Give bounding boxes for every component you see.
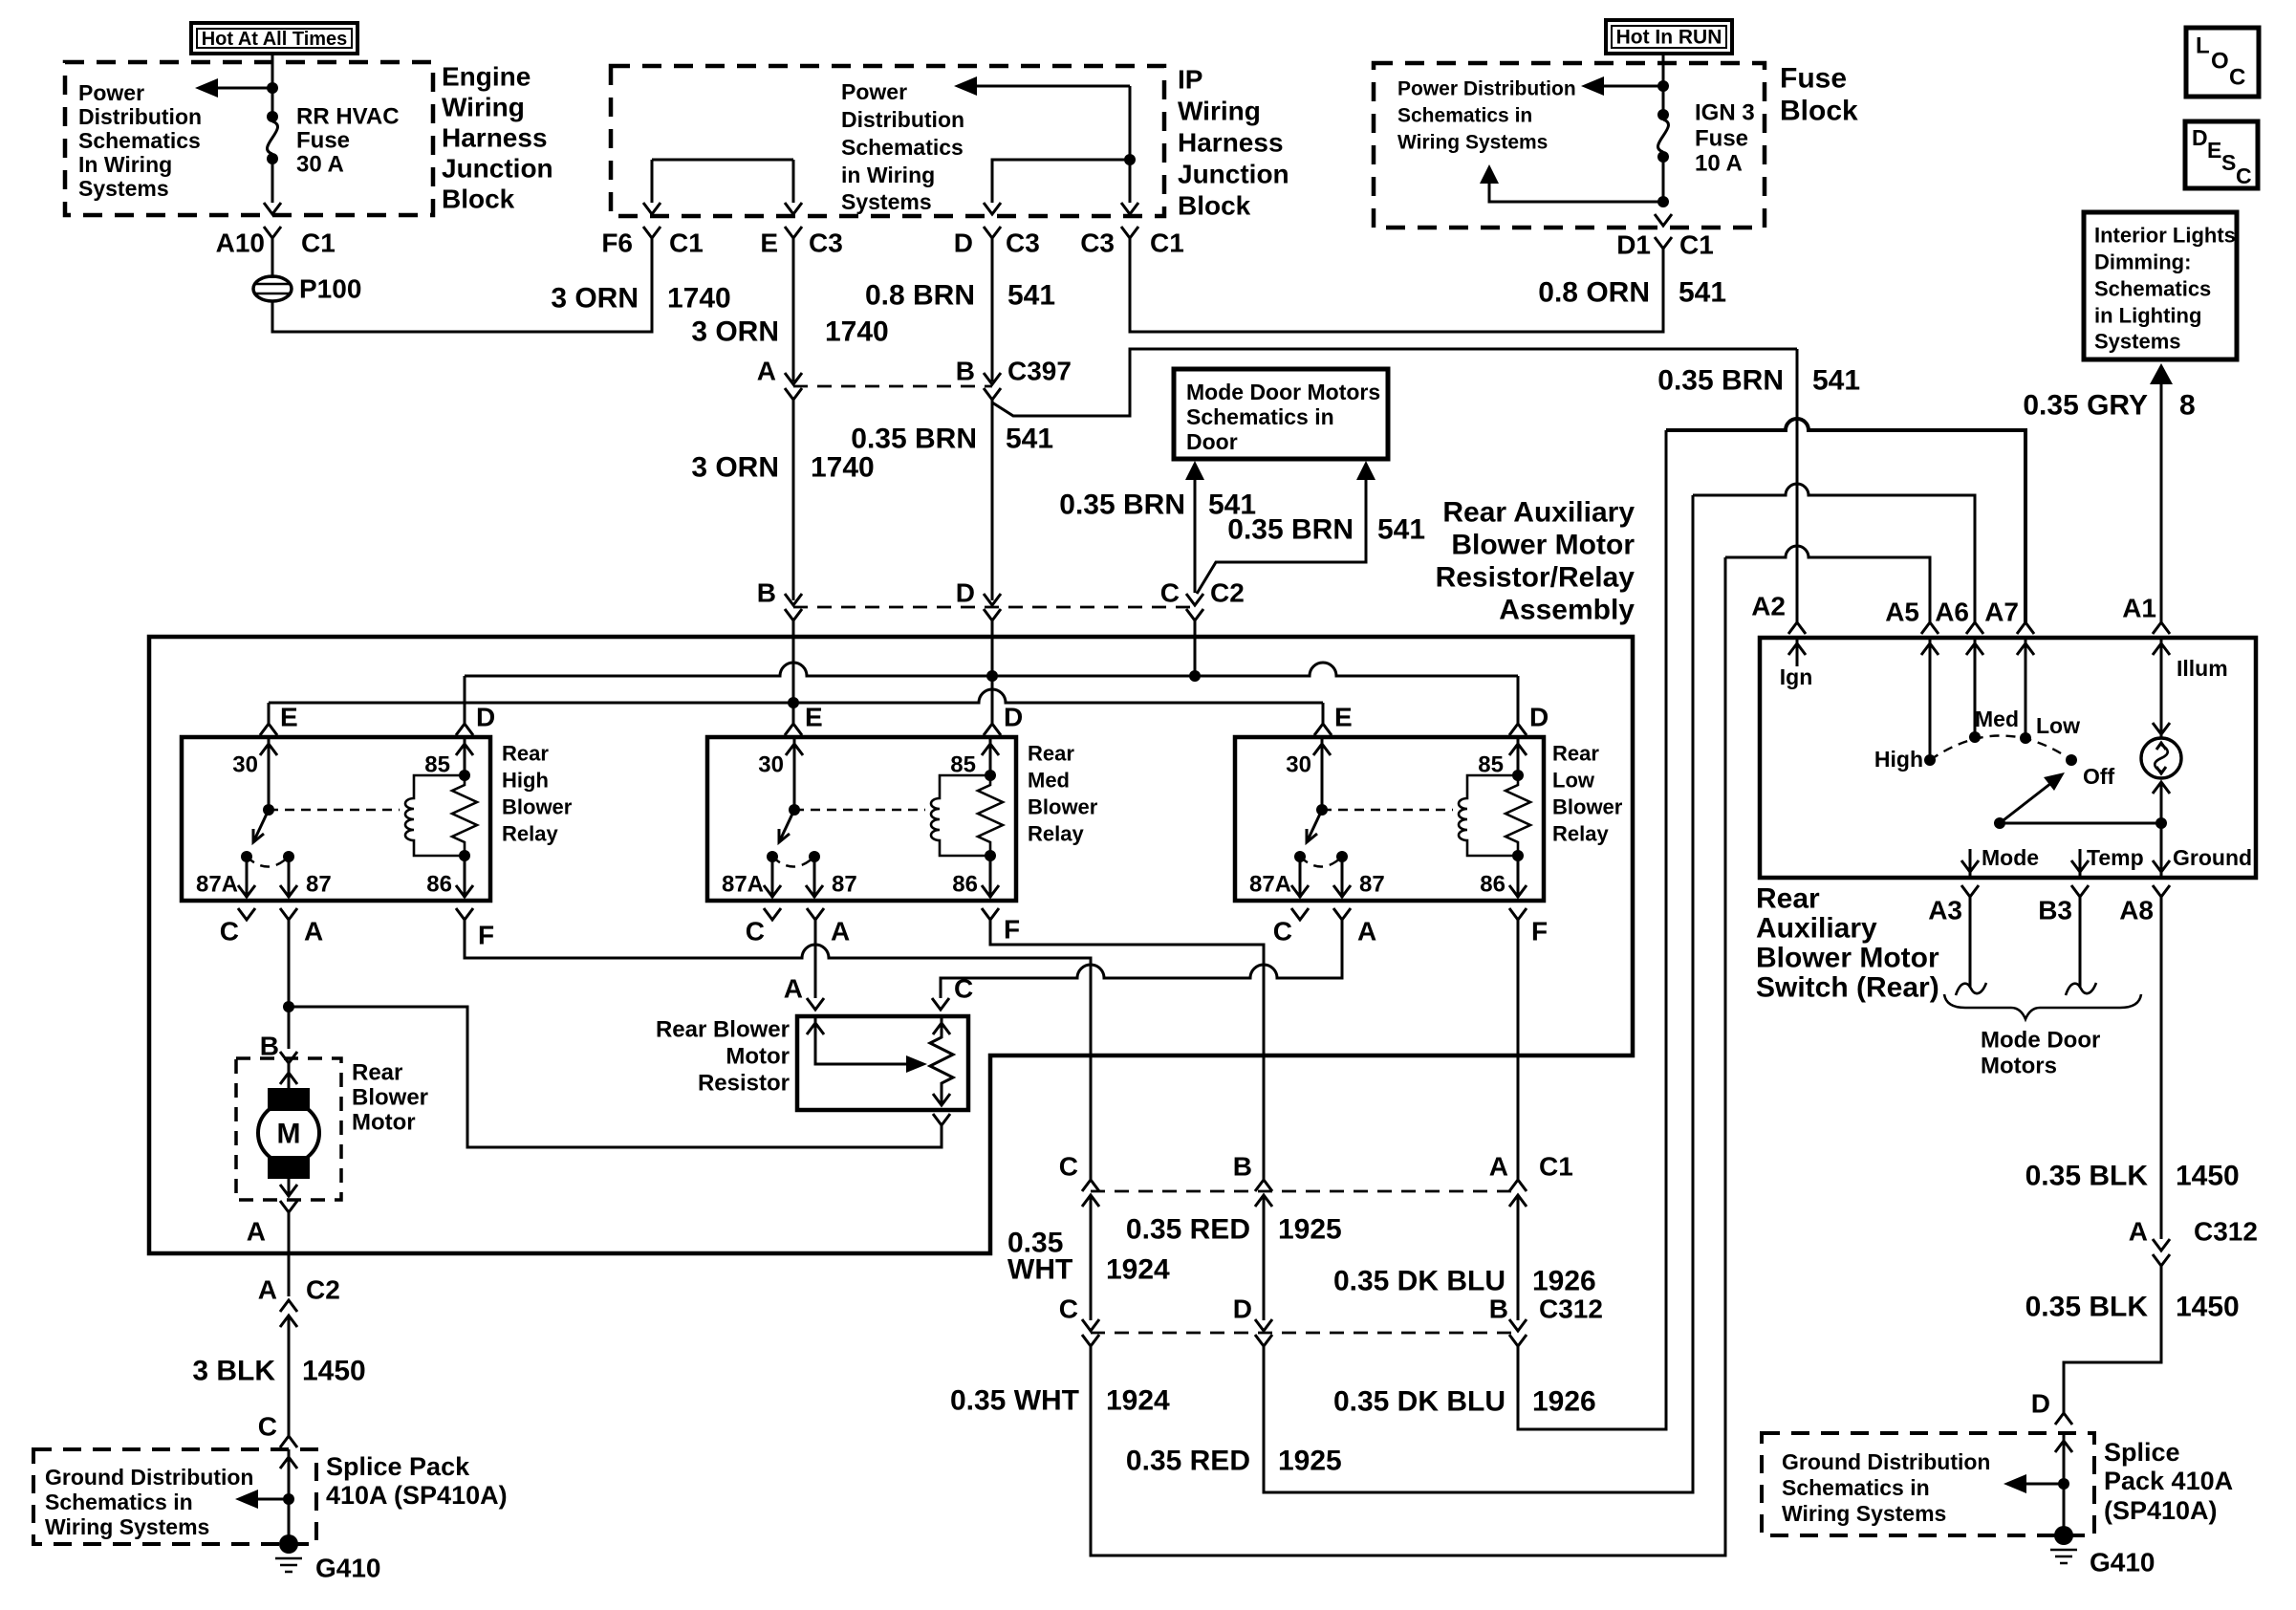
box-exit arrow at engine box bottom xyxy=(264,203,281,214)
motor A fork below dashed box xyxy=(280,1201,297,1212)
svg-text:A5: A5 xyxy=(1885,598,1919,627)
motor brush bottom xyxy=(268,1156,310,1179)
svg-text:A7: A7 xyxy=(1984,598,2019,627)
svg-text:0.35 BRN: 0.35 BRN xyxy=(1227,514,1354,546)
svg-text:1924: 1924 xyxy=(1106,1385,1170,1417)
wire B drop into box xyxy=(792,620,795,703)
wire 0.35 BRN 541 down to switch Ign A2 xyxy=(1796,349,1799,622)
svg-text:C1: C1 xyxy=(301,228,336,258)
wire D1 down to horizontal xyxy=(1130,238,1663,332)
relay U2 Rear Med Blower Relay xyxy=(707,737,1016,901)
connector A10 / C1 xyxy=(216,227,336,278)
wire A8 ground 0.35 BLK 1450 xyxy=(2160,897,2163,1239)
svg-text:Schematics in: Schematics in xyxy=(45,1490,193,1514)
svg-text:Dimming:: Dimming: xyxy=(2094,250,2191,274)
wire 0.35 BRN 541 below C397 to C2 xyxy=(991,400,994,600)
svg-text:C1: C1 xyxy=(1679,230,1714,260)
svg-text:Wiring: Wiring xyxy=(442,93,525,122)
svg-text:High: High xyxy=(1874,747,1923,772)
fuse RR HVAC 30A xyxy=(267,88,400,203)
svg-text:Ground Distribution: Ground Distribution xyxy=(1782,1449,1990,1474)
svg-text:1926: 1926 xyxy=(1532,1266,1596,1297)
svg-text:C312: C312 xyxy=(2194,1217,2258,1247)
wire 3 ORN 1740 below C397 xyxy=(792,400,795,600)
svg-text:E: E xyxy=(1334,703,1353,732)
text Power Distribution Schematics in Wiring Systems xyxy=(841,79,964,214)
motor B fork xyxy=(280,1052,297,1063)
wiper common to ground xyxy=(2000,822,2161,825)
motor dashed box xyxy=(236,1058,341,1200)
svg-text:A6: A6 xyxy=(1935,598,1969,627)
switch input forks A2 A5 A6 A7 A1 xyxy=(1751,592,2170,635)
svg-text:Interior Lights: Interior Lights xyxy=(2094,224,2236,248)
svg-text:D: D xyxy=(2031,1389,2050,1419)
svg-text:Engine: Engine xyxy=(442,62,531,92)
svg-text:Power: Power xyxy=(841,79,907,104)
branch arrow up inside fuse block xyxy=(1480,164,1669,207)
splice junction and arrow left xyxy=(2058,1478,2069,1490)
svg-text:A: A xyxy=(2129,1217,2148,1247)
svg-text:1450: 1450 xyxy=(2176,1292,2240,1323)
svg-text:Rear: Rear xyxy=(352,1060,402,1086)
dashed box ground distribution right xyxy=(1762,1433,2094,1535)
relay2 output forks C / A / F xyxy=(746,908,1020,946)
relay1 E/D pin wires xyxy=(269,676,465,724)
svg-text:G410: G410 xyxy=(315,1554,381,1583)
svg-text:Block: Block xyxy=(1178,191,1251,221)
resistor output fork xyxy=(933,1114,950,1125)
label box "Hot In RUN" xyxy=(1606,20,1732,54)
svg-text:541: 541 xyxy=(1007,280,1055,312)
svg-text:Wiring Systems: Wiring Systems xyxy=(1397,132,1548,154)
dashed box IP junction block xyxy=(611,66,1164,216)
svg-text:C: C xyxy=(2236,163,2252,188)
svg-text:A8: A8 xyxy=(2119,896,2154,925)
svg-text:10 A: 10 A xyxy=(1695,151,1743,177)
svg-text:Block: Block xyxy=(442,185,515,214)
motor M circle xyxy=(258,1102,319,1164)
connector A/C2 xyxy=(258,1275,340,1328)
svg-text:Hot At All Times: Hot At All Times xyxy=(202,29,348,50)
svg-text:Relay: Relay xyxy=(1552,822,1609,846)
wire 0.35 DK BLU 1926 (A column) xyxy=(1517,1195,1520,1320)
resistor A fork xyxy=(807,998,824,1010)
svg-text:Fuse: Fuse xyxy=(1780,63,1847,95)
svg-text:541: 541 xyxy=(1679,277,1726,309)
svg-text:0.8 ORN: 0.8 ORN xyxy=(1538,277,1650,309)
wire relay2 F to C1-B column xyxy=(990,920,1264,1180)
svg-text:0.35 BRN: 0.35 BRN xyxy=(851,424,977,455)
bus 85-coil feed (y=707) xyxy=(465,663,1518,676)
text Engine Wiring Harness Junction Block xyxy=(442,62,553,214)
Ground pin xyxy=(2160,823,2163,876)
svg-text:0.35 RED: 0.35 RED xyxy=(1126,1446,1250,1477)
svg-text:Motor: Motor xyxy=(726,1044,790,1070)
svg-text:B: B xyxy=(757,578,776,608)
svg-text:Hot In RUN: Hot In RUN xyxy=(1616,27,1722,49)
arrow to power distribution (left) xyxy=(195,78,278,98)
svg-text:C397: C397 xyxy=(1007,357,1072,386)
bus 30-contact feed (y=735) xyxy=(269,689,1323,703)
resistor A pin wire with arrow to element xyxy=(815,1016,906,1064)
svg-text:Wiring: Wiring xyxy=(1178,97,1261,126)
wire 3 BLK 1450 xyxy=(288,1316,291,1436)
svg-text:E: E xyxy=(280,703,298,732)
svg-text:0.35 BRN: 0.35 BRN xyxy=(1059,490,1185,521)
svg-text:0.35 BLK: 0.35 BLK xyxy=(2025,1161,2149,1192)
svg-text:541: 541 xyxy=(1006,424,1053,455)
svg-text:F: F xyxy=(1004,915,1020,945)
svg-text:0.35 DK BLU: 0.35 DK BLU xyxy=(1333,1266,1505,1297)
connector D1/C1 xyxy=(1616,230,1714,260)
connector C2 row xyxy=(757,578,1245,621)
wire relay1 87 down to motor junction xyxy=(288,920,291,1049)
svg-text:Blower Motor: Blower Motor xyxy=(1451,530,1635,561)
svg-text:IP: IP xyxy=(1178,65,1202,95)
svg-text:A1: A1 xyxy=(2122,594,2156,623)
A7 Low pin xyxy=(2025,638,2027,738)
dashed box Engine Wiring Harness Junction Block xyxy=(65,62,433,215)
svg-text:High: High xyxy=(502,769,549,793)
svg-text:P100: P100 xyxy=(299,274,361,304)
svg-text:1450: 1450 xyxy=(302,1356,366,1387)
svg-text:C312: C312 xyxy=(1539,1295,1603,1324)
text IP Wiring Harness Junction Block xyxy=(1178,65,1289,221)
svg-text:Rear: Rear xyxy=(1756,883,1820,915)
svg-text:8: 8 xyxy=(2179,390,2196,422)
svg-text:Systems: Systems xyxy=(2094,330,2181,354)
wire label 0.8 ORN 541 xyxy=(1538,277,1726,309)
svg-text:410A (SP410A): 410A (SP410A) xyxy=(326,1481,508,1510)
dashed box ground distribution left xyxy=(33,1449,316,1544)
svg-text:A: A xyxy=(784,974,803,1004)
DESC reference box xyxy=(2185,121,2258,188)
svg-text:Blower: Blower xyxy=(1028,795,1098,819)
box Interior Lights Dimming: Schematics in Lighting Systems xyxy=(2084,212,2237,359)
assembly outline box xyxy=(149,637,1633,1253)
svg-text:(SP410A): (SP410A) xyxy=(2104,1496,2218,1525)
svg-text:3 ORN: 3 ORN xyxy=(551,283,639,315)
wire to A7 (top) xyxy=(1666,419,2025,622)
ground G410 xyxy=(275,1534,381,1583)
arrow left to power distribution xyxy=(1581,76,1669,96)
wire C1 feed inside IP box xyxy=(1129,86,1132,203)
svg-text:C: C xyxy=(1059,1152,1078,1182)
svg-text:Low: Low xyxy=(2036,713,2080,738)
relay3 E/D pin wires xyxy=(1323,676,1518,724)
svg-text:In Wiring: In Wiring xyxy=(78,152,172,177)
junction dot on C1 wire xyxy=(1124,154,1136,165)
motor feed wire xyxy=(288,1063,291,1090)
wire 0.8 BRN 541 (D drop) xyxy=(991,238,994,381)
arrow up into interior lights box xyxy=(2150,363,2173,384)
svg-text:A: A xyxy=(247,1217,266,1247)
text Splice Pack 410A (SP410A) xyxy=(326,1452,508,1510)
wire from Hot At All Times into box xyxy=(271,54,274,88)
svg-text:A2: A2 xyxy=(1751,592,1786,621)
svg-text:Fuse: Fuse xyxy=(296,128,350,154)
svg-text:Schematics in: Schematics in xyxy=(1186,404,1334,429)
svg-text:Blower Motor: Blower Motor xyxy=(1756,943,1939,974)
svg-text:Blower: Blower xyxy=(502,795,573,819)
svg-text:Relay: Relay xyxy=(1028,822,1084,846)
text Rear Blower Motor xyxy=(352,1060,428,1136)
svg-text:D: D xyxy=(1004,703,1023,732)
resistor C fork xyxy=(932,998,949,1010)
wire A3 to mode door motors xyxy=(1969,897,1972,988)
svg-text:Power Distribution: Power Distribution xyxy=(1397,78,1576,100)
switch box xyxy=(1760,638,2256,878)
svg-text:Distribution: Distribution xyxy=(78,104,202,129)
svg-text:Schematics: Schematics xyxy=(78,128,201,153)
svg-text:Med: Med xyxy=(1028,769,1070,793)
svg-text:C: C xyxy=(2229,65,2245,91)
svg-text:Motor: Motor xyxy=(352,1110,416,1136)
svg-text:D: D xyxy=(956,578,975,608)
svg-text:A: A xyxy=(258,1275,277,1305)
svg-text:B: B xyxy=(1489,1295,1508,1324)
svg-text:Schematics in: Schematics in xyxy=(1397,105,1532,127)
internal bus to D exit xyxy=(992,160,1130,203)
svg-text:Splice Pack: Splice Pack xyxy=(326,1452,470,1481)
box-exit arrows IP bottom xyxy=(643,203,661,214)
relay3 output forks C / A / F xyxy=(1273,908,1548,946)
svg-text:D: D xyxy=(954,228,973,258)
svg-text:F: F xyxy=(478,921,494,950)
connector C into splice pack xyxy=(280,1436,297,1447)
relay1 output forks C / A / F xyxy=(220,908,494,950)
svg-text:M: M xyxy=(277,1119,301,1150)
svg-text:E: E xyxy=(760,228,778,258)
svg-text:Resistor: Resistor xyxy=(698,1071,790,1097)
resistor box xyxy=(797,1016,968,1110)
svg-text:C3: C3 xyxy=(809,228,843,258)
svg-text:A3: A3 xyxy=(1928,896,1962,925)
text Splice Pack 410A (SP410A) xyxy=(2104,1438,2233,1525)
relay2 E/D pin wires xyxy=(793,676,992,724)
Off contact xyxy=(2066,754,2077,766)
svg-text:D1: D1 xyxy=(1616,230,1651,260)
svg-text:1924: 1924 xyxy=(1106,1254,1170,1286)
svg-text:B: B xyxy=(1233,1152,1252,1182)
connector E/C3 xyxy=(760,227,842,258)
svg-text:in Wiring: in Wiring xyxy=(841,163,935,187)
svg-text:B: B xyxy=(956,357,975,386)
wire relay3 F to C1-A column xyxy=(1517,920,1520,1180)
svg-text:A10: A10 xyxy=(216,228,265,258)
wire branch 0.35 BRN 541 to mode door box xyxy=(1197,478,1366,594)
svg-text:Junction: Junction xyxy=(1178,160,1289,189)
svg-text:0.35 GRY: 0.35 GRY xyxy=(2023,390,2148,422)
svg-text:Rear: Rear xyxy=(1552,742,1599,766)
svg-text:O: O xyxy=(2211,49,2229,75)
label box "Hot At All Times" xyxy=(191,23,357,54)
svg-text:Ground: Ground xyxy=(2173,845,2252,870)
connector F6/C1 xyxy=(601,227,703,258)
wire to A6 (middle) xyxy=(1693,484,1975,622)
arrow up into mode door box (left) xyxy=(1185,461,1204,480)
svg-text:0.35 BRN: 0.35 BRN xyxy=(1657,365,1784,397)
connector C1 row xyxy=(1059,1152,1573,1207)
svg-text:3 BLK: 3 BLK xyxy=(192,1356,275,1387)
wire 0.35 GRY 8 down to switch A1 xyxy=(2160,384,2163,622)
wiper arm xyxy=(1994,772,2065,829)
svg-text:Block: Block xyxy=(1780,96,1858,127)
svg-text:Fuse: Fuse xyxy=(1695,126,1748,152)
LOC reference box xyxy=(2186,28,2259,97)
svg-text:Rear Auxiliary: Rear Auxiliary xyxy=(1442,497,1635,529)
svg-text:C3: C3 xyxy=(1080,228,1115,258)
connector C3/C1 xyxy=(1080,227,1184,258)
illumination lamp xyxy=(2141,723,2181,823)
svg-text:Harness: Harness xyxy=(442,123,548,153)
svg-text:A: A xyxy=(831,917,850,946)
svg-text:Low: Low xyxy=(1552,769,1595,793)
svg-text:0.35 BLK: 0.35 BLK xyxy=(2025,1292,2149,1323)
box Mode Door Motors Schematics in Door xyxy=(1174,369,1388,459)
svg-text:F6: F6 xyxy=(601,228,633,258)
svg-text:D: D xyxy=(1529,703,1549,732)
wire relay2 87 to resistor A xyxy=(814,920,817,998)
svg-text:C3: C3 xyxy=(1006,228,1040,258)
svg-text:C1: C1 xyxy=(1539,1152,1573,1182)
svg-text:C1: C1 xyxy=(1150,228,1184,258)
box-exit arrow at fuse block bottom xyxy=(1655,214,1672,226)
internal bus F6 to E xyxy=(652,160,793,203)
output forks A3 B3 A8 xyxy=(1928,885,2170,925)
Temp pin xyxy=(2079,849,2082,876)
wire to A5 (bottom) xyxy=(1725,546,1930,622)
svg-text:0.35 WHT: 0.35 WHT xyxy=(950,1385,1079,1417)
svg-text:0.35 RED: 0.35 RED xyxy=(1126,1214,1250,1246)
svg-text:Assembly: Assembly xyxy=(1499,595,1635,626)
text Rear Auxiliary Blower Motor Switch (Rear) xyxy=(1756,883,1939,1004)
svg-text:A: A xyxy=(1357,917,1376,946)
svg-text:C2: C2 xyxy=(1210,578,1245,608)
svg-text:Resistor/Relay: Resistor/Relay xyxy=(1436,562,1635,594)
svg-text:1450: 1450 xyxy=(2176,1161,2240,1192)
svg-text:Splice: Splice xyxy=(2104,1438,2180,1467)
connector C397 xyxy=(757,357,1072,401)
svg-text:A: A xyxy=(757,357,776,386)
svg-text:D: D xyxy=(2192,125,2208,150)
wire relay3 87 to resistor C xyxy=(941,920,1342,998)
Ign pin xyxy=(1780,638,1813,689)
svg-text:1740: 1740 xyxy=(825,316,889,348)
svg-text:RR HVAC: RR HVAC xyxy=(296,104,400,130)
text Rear Auxiliary Blower Motor Resistor/Relay Assembly xyxy=(1436,497,1635,626)
svg-text:1926: 1926 xyxy=(1532,1386,1596,1418)
svg-text:B: B xyxy=(260,1032,279,1061)
svg-text:C: C xyxy=(1273,917,1292,946)
svg-text:L: L xyxy=(2196,33,2210,59)
svg-text:Wiring Systems: Wiring Systems xyxy=(1782,1501,1946,1526)
brace mode door motors xyxy=(1944,994,2141,1019)
wire jog from C397-B to ignition feed 0.35 BRN xyxy=(992,349,1797,416)
svg-text:Rear Blower: Rear Blower xyxy=(656,1017,790,1043)
svg-text:A: A xyxy=(1489,1152,1508,1182)
svg-text:Med: Med xyxy=(1975,707,2019,731)
svg-text:Auxiliary: Auxiliary xyxy=(1756,913,1877,945)
svg-text:Systems: Systems xyxy=(78,176,169,201)
svg-text:E: E xyxy=(2207,138,2221,163)
dashed box Fuse Block xyxy=(1374,63,1765,228)
wire motor A down through assembly box xyxy=(288,1212,291,1296)
text Fuse Block xyxy=(1780,63,1858,127)
svg-text:C: C xyxy=(220,917,239,946)
resistor element xyxy=(930,1016,953,1105)
svg-text:in Lighting: in Lighting xyxy=(2094,304,2201,328)
svg-text:Mode Door: Mode Door xyxy=(1981,1028,2100,1054)
svg-text:Relay: Relay xyxy=(502,822,558,846)
wire 3 ORN 1740 (E drop) xyxy=(792,238,795,381)
svg-text:D: D xyxy=(476,703,495,732)
svg-text:WHT: WHT xyxy=(1007,1254,1072,1286)
wire B3 to mode door motors xyxy=(2079,897,2082,988)
svg-text:Motors: Motors xyxy=(1981,1054,2057,1079)
svg-text:IGN 3: IGN 3 xyxy=(1695,100,1755,126)
text Power Distribution Schematics in Wiring Systems xyxy=(1397,78,1576,154)
svg-text:1740: 1740 xyxy=(667,283,731,315)
svg-text:Schematics: Schematics xyxy=(841,135,964,160)
svg-text:A: A xyxy=(304,917,323,946)
svg-text:Rear: Rear xyxy=(1028,742,1074,766)
motor brush top xyxy=(268,1088,310,1111)
wire 0.35 WHT 1924 below C312 routed to A5 line xyxy=(1091,557,1725,1556)
svg-text:D: D xyxy=(1233,1295,1252,1324)
svg-text:3 ORN: 3 ORN xyxy=(691,452,779,484)
wire P100 down and right to F6 xyxy=(272,238,652,332)
svg-text:C2: C2 xyxy=(306,1275,340,1305)
wire 0.35 BRN 541 from C2-C up to mode door box xyxy=(1194,478,1197,593)
svg-text:Door: Door xyxy=(1186,429,1238,454)
relay U1 Rear High Blower Relay xyxy=(182,737,490,901)
svg-text:G410: G410 xyxy=(2090,1548,2155,1577)
Mode pin xyxy=(1969,849,1972,876)
svg-text:C: C xyxy=(954,974,973,1004)
connector C312 row xyxy=(1059,1295,1603,1347)
wire from Hot In RUN xyxy=(1662,54,1665,88)
svg-text:Schematics: Schematics xyxy=(2094,277,2211,301)
svg-text:C: C xyxy=(1160,578,1180,608)
wire 0.35 DK BLU 1926 below C312 routed to A7 line xyxy=(1518,430,1666,1429)
svg-text:S: S xyxy=(2221,150,2236,175)
svg-text:C: C xyxy=(746,917,765,946)
svg-text:Mode Door Motors: Mode Door Motors xyxy=(1186,380,1380,404)
svg-text:E: E xyxy=(805,703,823,732)
svg-text:1925: 1925 xyxy=(1278,1446,1342,1477)
A6 Med pin xyxy=(1974,638,1977,737)
svg-text:C1: C1 xyxy=(669,228,704,258)
svg-text:Blower: Blower xyxy=(352,1085,428,1111)
ground G410 xyxy=(2050,1526,2155,1577)
wire D drop into box xyxy=(991,620,994,722)
svg-text:30 A: 30 A xyxy=(296,152,344,178)
svg-text:0.8 BRN: 0.8 BRN xyxy=(865,280,975,312)
connector D/C3 xyxy=(954,227,1040,258)
arrow to power distribution schematics xyxy=(954,76,1130,96)
wire C drop into box xyxy=(1194,620,1197,676)
wire into splice with arrow xyxy=(288,1449,291,1541)
wire 0.35 RED 1925 (B column) xyxy=(1263,1195,1266,1320)
svg-text:Harness: Harness xyxy=(1178,128,1284,158)
A5 High pin xyxy=(1929,638,1932,760)
svg-text:1740: 1740 xyxy=(811,452,875,484)
svg-text:C: C xyxy=(1059,1295,1078,1324)
svg-text:Mode: Mode xyxy=(1982,845,2039,870)
wire label 3 ORN 1740 xyxy=(551,283,730,315)
wire motor junction to resistor bottom xyxy=(289,1007,942,1147)
